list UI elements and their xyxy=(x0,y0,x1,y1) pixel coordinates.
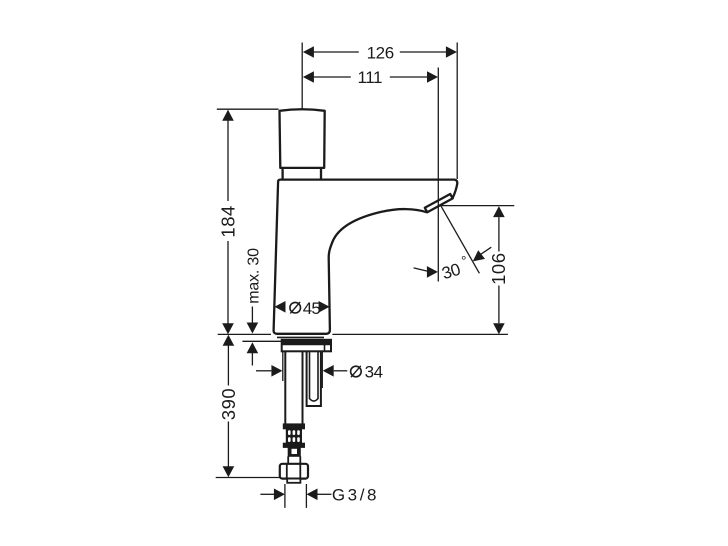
svg-text:45: 45 xyxy=(303,299,321,318)
connector window xyxy=(292,449,298,454)
stem below up arrow at flange xyxy=(251,352,253,366)
arrow 126 left xyxy=(303,46,314,58)
dimension line 184 xyxy=(227,111,229,202)
arrow 184 top xyxy=(222,110,234,121)
dimension line 106 xyxy=(498,217,500,251)
arrow G38 left xyxy=(274,489,285,501)
flange right step divider xyxy=(324,344,326,351)
extension line G3/8 right xyxy=(305,484,307,508)
collar upper xyxy=(283,424,304,429)
handle (top cylinder) xyxy=(280,109,325,168)
corrugated section xyxy=(286,429,302,443)
dimension line 390 xyxy=(227,346,229,386)
dimension leader G3/8 right xyxy=(318,493,332,495)
arrow flange up xyxy=(247,342,259,353)
extension line right (126) xyxy=(456,43,458,180)
arrow 184 bottom xyxy=(222,323,234,334)
arrow G38 right xyxy=(307,489,318,501)
neck between handle and body xyxy=(281,168,283,179)
30 degree ray xyxy=(438,201,479,273)
extension line 184 top xyxy=(217,108,279,110)
leader to vertical line (30 deg) xyxy=(414,268,428,271)
dimension line 111 xyxy=(314,76,351,78)
dimension line 126 xyxy=(314,51,359,53)
arrow 126 right xyxy=(446,46,457,58)
arrow 390 bottom xyxy=(223,466,235,477)
tab below nut xyxy=(287,479,300,483)
arrow O45 left xyxy=(275,301,286,313)
arrow 390 top xyxy=(223,335,235,346)
arrow 106 bottom xyxy=(493,323,505,334)
dimension leader G3/8 left xyxy=(260,493,274,495)
arrow max30 down xyxy=(247,323,259,334)
svg-text:126: 126 xyxy=(367,43,394,62)
dimension stem max.30 xyxy=(251,307,253,325)
flange thin top plate xyxy=(277,336,324,338)
neck above nut xyxy=(287,456,289,464)
arrow O45 right xyxy=(319,301,330,313)
arrow 111 left xyxy=(303,71,314,83)
arrow 111 right xyxy=(427,71,438,83)
shank tube right wall xyxy=(302,351,304,424)
bottom reference line xyxy=(216,477,288,479)
extension line left (126/111) xyxy=(301,43,303,109)
flange inner line xyxy=(282,343,331,345)
svg-text:106: 106 xyxy=(488,253,509,285)
faucet body and spout outline xyxy=(274,180,458,334)
aerator (30 deg outlet) xyxy=(425,194,453,212)
svg-text:390: 390 xyxy=(218,388,239,420)
dimension leader O34 left xyxy=(256,370,271,372)
arrow O34 right xyxy=(323,365,334,377)
arrow O34 left xyxy=(271,365,282,377)
leader to ray (30 deg) xyxy=(480,247,492,255)
svg-text:184: 184 xyxy=(218,205,239,237)
extension line O34 left xyxy=(282,351,284,382)
supply nut xyxy=(280,464,308,479)
extension line 106 top xyxy=(439,205,515,207)
svg-text:111: 111 xyxy=(357,68,382,87)
arrow 30deg at vertical xyxy=(427,266,438,278)
extension line flange top xyxy=(242,340,283,342)
extension line G3/8 left xyxy=(284,484,286,508)
svg-text:°: ° xyxy=(461,254,466,269)
hose socket bore xyxy=(310,351,319,401)
flange main body xyxy=(282,340,331,352)
extension line O34 right xyxy=(321,351,323,389)
arrow 106 top xyxy=(493,206,505,217)
svg-text:max. 30: max. 30 xyxy=(245,248,262,304)
mounting surface line right xyxy=(332,333,508,335)
connector block xyxy=(288,447,300,456)
svg-text:G3/8: G3/8 xyxy=(332,485,379,504)
mounting surface line left xyxy=(218,333,271,335)
diameter symbol for 45 xyxy=(290,302,301,313)
dimension leader O34 right xyxy=(334,370,348,372)
diameter symbol for 34 xyxy=(351,366,362,377)
collar lower xyxy=(283,443,304,447)
arrow 30deg at ray xyxy=(473,250,485,261)
extension line middle (111/aerator axis) xyxy=(437,68,439,282)
flange dark seal strip xyxy=(282,340,331,345)
svg-text:34: 34 xyxy=(365,363,383,382)
hose socket outer xyxy=(307,351,321,406)
shank tube left wall xyxy=(284,351,286,424)
